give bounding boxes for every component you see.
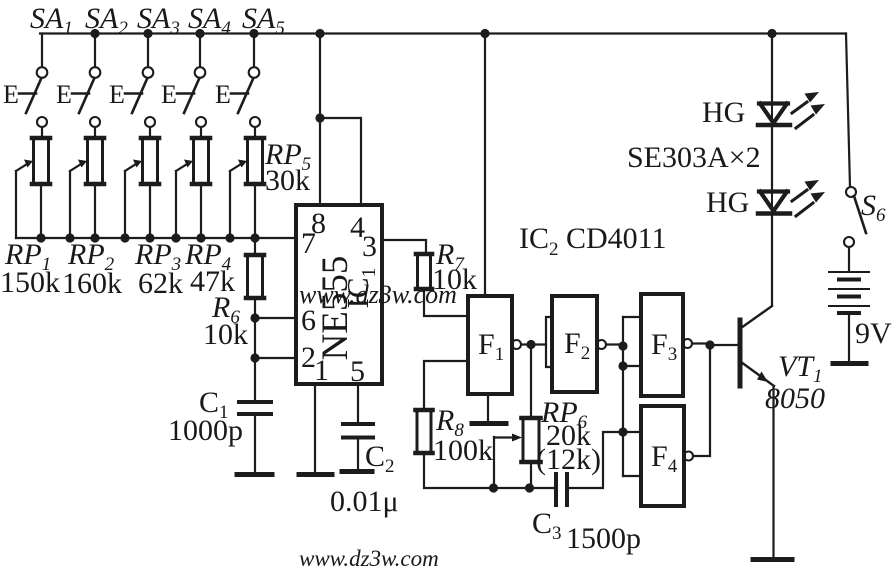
switch SA2 actuator dash (72, 92, 89, 95)
svg-text:100k: 100k (433, 434, 493, 467)
resistor R6 body (246, 255, 264, 298)
wire bottom feedback bus (424, 487, 553, 489)
ground bar under C1 (237, 472, 272, 477)
svg-text:8050: 8050 (765, 382, 825, 415)
wire S6 drop from bus (846, 34, 850, 188)
wire NE555 pin4 branch (320, 118, 361, 205)
wire NE555 pin5 to C2 (357, 384, 359, 422)
wire C2 to ground (357, 439, 359, 469)
potentiometer RP6 wiper arrow (494, 436, 512, 438)
resistor R7 body (416, 254, 432, 289)
svg-text:C2: C2 (365, 440, 395, 477)
wire R6 top lead (254, 238, 256, 255)
potentiometer RP4 body (192, 138, 210, 184)
svg-text:10k: 10k (203, 318, 248, 351)
wire pin6 (255, 317, 296, 319)
ground bar under VT1 emitter (753, 557, 792, 562)
gate F4 output bubble (684, 452, 693, 461)
wire between LEDs (771, 126, 773, 191)
gate F3 output bubble (683, 339, 692, 348)
switch SA1 blade (26, 79, 41, 113)
svg-text:E: E (109, 80, 125, 109)
gate F2 box (552, 296, 597, 392)
switch SA5 actuator dash (231, 92, 248, 95)
wire F1 ground stub (487, 394, 489, 421)
wire R8 bottom lead (423, 453, 425, 488)
switch SA2 terminals (90, 67, 101, 78)
wire base of VT1 (710, 344, 737, 346)
svg-text:3: 3 (362, 230, 377, 263)
svg-text:1500p: 1500p (566, 522, 641, 555)
capacitor C1 plates (239, 402, 271, 414)
ground bar under F1 (472, 421, 506, 426)
wire battery to ground (848, 314, 850, 361)
svg-text:E: E (3, 80, 19, 109)
potentiometer RP2 body (86, 138, 104, 184)
switch S6 terminals (846, 187, 856, 197)
svg-text:IC2 CD4011: IC2 CD4011 (519, 222, 667, 260)
svg-text:F3: F3 (651, 328, 677, 365)
wire F4 input stubs (623, 432, 641, 476)
gate F1 box (468, 296, 512, 394)
potentiometer RP6 body (522, 418, 541, 462)
svg-text:160k: 160k (62, 267, 122, 300)
wire pot bottom bus to pin7 (16, 237, 296, 239)
svg-text:F4: F4 (651, 440, 678, 477)
ground bar under pin1 (299, 472, 332, 477)
IC1 NE555 box (296, 205, 382, 384)
wire pin2 (255, 357, 296, 359)
capacitor C3 plates (556, 474, 567, 505)
LED HG2 emission arrows (792, 180, 825, 216)
wire SA2 stub (94, 34, 96, 68)
wire RP3 wiper lead (124, 171, 126, 238)
wire F2 output to F3/F4 tie bar (606, 317, 623, 476)
potentiometer RP3 wiper arrow (125, 164, 136, 171)
switch SA4 terminals (195, 67, 206, 78)
switch SA4 blade (184, 79, 199, 113)
wire S6 to battery (848, 247, 850, 271)
wire F1 input B to R8 top (424, 361, 468, 410)
wire RP2 wiper lead (69, 171, 71, 238)
svg-text:E: E (161, 80, 177, 109)
wire R7 bottom to F1 input A (424, 289, 468, 316)
wire RP4 wiper lead (175, 171, 177, 238)
svg-text:HG: HG (706, 186, 749, 219)
wire C1 to ground (254, 415, 256, 472)
svg-text:30k: 30k (265, 164, 310, 197)
svg-text:S6: S6 (861, 189, 886, 226)
svg-text:7: 7 (301, 227, 316, 260)
svg-text:F2: F2 (564, 327, 590, 364)
potentiometer RP2 wiper arrow (70, 164, 81, 171)
wire SA3 stub (147, 34, 149, 68)
wire RP5 wiper lead (229, 171, 231, 238)
wire F1 VDD branch from bus (484, 34, 486, 297)
wire F3 input stubs (623, 317, 641, 366)
switch SA5 terminals (249, 67, 260, 78)
potentiometer RP4 wiper arrow (176, 164, 187, 171)
switch SA5 blade (238, 79, 253, 113)
wire C3 right to F4 input node (567, 432, 623, 488)
svg-text:SA2: SA2 (85, 2, 128, 39)
gate F1 output bubble (512, 340, 521, 349)
wire RP6 bottom lead (530, 462, 532, 488)
wire LED2 to collector (771, 216, 773, 305)
svg-text:0.01μ: 0.01μ (330, 485, 399, 518)
svg-text:F1: F1 (478, 328, 504, 365)
switch S6 blade (854, 196, 866, 233)
potentiometer RP5 wiper arrow (230, 164, 241, 171)
svg-text:E: E (215, 80, 231, 109)
wire NE555 pin1 to ground (314, 384, 316, 472)
potentiometer RP5 body (246, 138, 264, 184)
battery GB 9V (829, 272, 869, 313)
resistor R8 body (416, 410, 433, 453)
switch SA1 terminals (37, 67, 48, 78)
svg-text:E: E (56, 80, 72, 109)
wire SA1 stub (41, 34, 43, 68)
svg-text:(12k): (12k) (536, 443, 601, 476)
wire F2 input tie bar (546, 317, 552, 367)
svg-text:9V: 9V (855, 317, 892, 350)
LED HG1 emission arrows (792, 92, 825, 128)
potentiometer RP1 wiper arrow (16, 164, 27, 171)
svg-text:SE303A×2: SE303A×2 (627, 141, 761, 174)
potentiometer RP1 body (32, 138, 50, 184)
svg-text:www.dz3w.com: www.dz3w.com (299, 280, 457, 309)
ground bar under battery (833, 361, 866, 366)
svg-text:C3: C3 (532, 507, 562, 544)
switch SA3 blade (132, 79, 147, 113)
gate F2 output bubble (597, 340, 606, 349)
potentiometer RP3 body (141, 138, 159, 184)
svg-text:SA5: SA5 (242, 2, 285, 39)
wire NE555 pin8 branch from bus (319, 34, 321, 206)
wire switch bottoms to pots (42, 127, 255, 138)
wire SA4 stub (199, 34, 201, 68)
ground bar under C2 (342, 469, 372, 474)
svg-text:HG: HG (702, 96, 745, 129)
wire RP6 wiper lead (493, 437, 495, 488)
transistor VT1 (740, 306, 774, 386)
switch SA2 blade (79, 79, 94, 113)
svg-text:62k: 62k (138, 267, 183, 300)
wire SA5 stub (253, 34, 255, 68)
svg-text:SA1: SA1 (30, 2, 73, 39)
LED HG2 (758, 192, 790, 214)
svg-text:SA4: SA4 (188, 2, 231, 39)
svg-text:1000p: 1000p (168, 414, 243, 447)
gate F3 box (641, 294, 683, 396)
gate F4 box (641, 406, 684, 506)
LED HG1 (758, 104, 790, 126)
wire F1 output to RP6 top (530, 345, 532, 419)
wire F4 output riser (693, 345, 710, 456)
wire top supply bus (40, 32, 846, 34)
wire LED branch from bus (771, 34, 773, 104)
wire F1 output to F2 (521, 343, 546, 345)
switch SA4 actuator dash (177, 92, 194, 95)
switch SA1 actuator dash (19, 92, 36, 95)
svg-text:SA3: SA3 (137, 2, 180, 39)
wire VT1 emitter to ground (772, 387, 774, 557)
switch SA3 actuator dash (125, 92, 142, 95)
svg-text:www.dz3w.com: www.dz3w.com (299, 546, 439, 571)
wire F3 output (692, 342, 710, 344)
svg-text:150k: 150k (0, 266, 60, 299)
wire pin3 to R7 (382, 240, 426, 254)
switch SA3 terminals (143, 67, 154, 78)
wire R6 bottom to C1 (254, 298, 256, 401)
wire pot bottom leads (41, 184, 255, 238)
capacitor C2 plates (343, 424, 373, 438)
wire RP1 wiper lead (15, 171, 17, 238)
